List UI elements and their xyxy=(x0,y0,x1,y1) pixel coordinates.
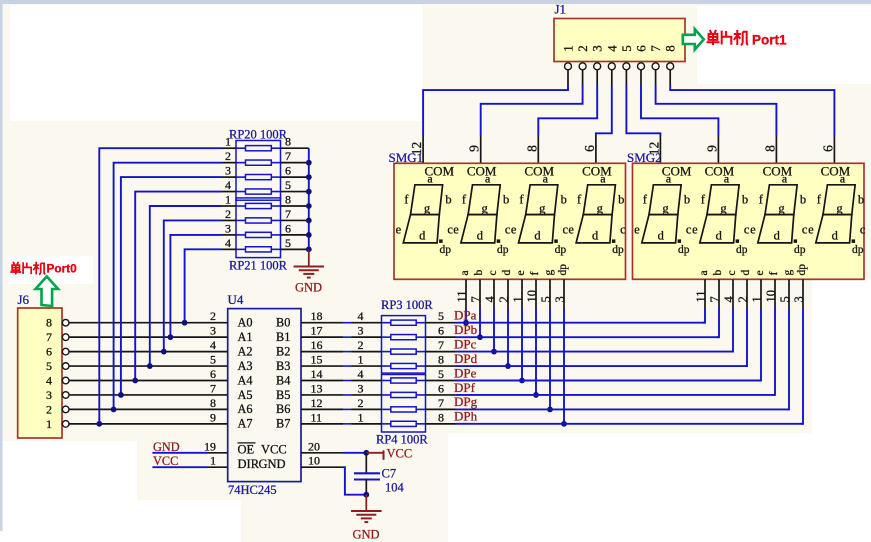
wire RP20/21 pin 2 to U4 A6 xyxy=(114,163,222,410)
svg-text:15: 15 xyxy=(311,353,323,367)
svg-text:c: c xyxy=(620,223,626,237)
wire J1 pin 1 to SMG1 COM1 xyxy=(423,85,568,136)
RP20/21 left stub 5 xyxy=(222,219,237,221)
wire SMG1 segment col 0 down to DP row xyxy=(465,308,467,323)
net wire DPc xyxy=(456,351,734,353)
svg-text:b: b xyxy=(858,193,864,207)
J1 pin 4 stub xyxy=(611,70,613,85)
svg-text:c: c xyxy=(726,270,738,275)
svg-text:6: 6 xyxy=(582,145,597,152)
svg-text:c: c xyxy=(860,223,866,237)
wire J1 pin 3 to SMG1 COM3 xyxy=(538,85,597,136)
RP3/RP4 resistor element row 2 xyxy=(391,349,416,354)
svg-text:6: 6 xyxy=(438,381,444,395)
svg-text:b: b xyxy=(712,270,724,276)
svg-text:2: 2 xyxy=(575,45,590,52)
wire RP20/21 pin 4 to U4 A0 xyxy=(185,249,222,322)
net wire DPf xyxy=(456,394,776,396)
wire U4-RP gap row 1 xyxy=(343,336,352,338)
svg-text:6: 6 xyxy=(285,164,291,178)
Port1 arrow (green, pointing right) xyxy=(683,29,704,49)
svg-text:dp: dp xyxy=(736,244,748,256)
U4 right pin stub 17 xyxy=(301,336,343,338)
U4 right pin stub 14 xyxy=(301,380,343,382)
svg-text:g: g xyxy=(778,201,785,215)
RP3/RP4 resistor element row 0 xyxy=(391,320,416,325)
RP20/21 right stub 4 xyxy=(271,205,280,207)
junction SMG1 col 2 xyxy=(491,349,497,355)
svg-text:COM: COM xyxy=(524,164,554,179)
U4 right pin stub 18 xyxy=(301,322,343,324)
J1 pin 3 circle xyxy=(594,63,601,70)
svg-text:6: 6 xyxy=(634,45,649,52)
junction RP right row 2 xyxy=(306,174,312,180)
RP3/RP4 resistor element row 3 xyxy=(391,363,416,368)
RP20/21 right stub 1 xyxy=(271,162,280,164)
RP3/RP4 resistor element row 6 xyxy=(391,407,416,412)
svg-text:g: g xyxy=(836,201,843,215)
SMG2 COM4 pin stub xyxy=(833,136,835,163)
J1 pin 4 circle xyxy=(608,63,615,70)
J1 pin 3 stub xyxy=(596,70,598,85)
U4 right pin stub 12 xyxy=(301,408,343,410)
junction RP right row 7 xyxy=(306,246,312,252)
svg-text:DPd: DPd xyxy=(454,351,478,366)
junction bundle 1 xyxy=(111,407,117,413)
VCC power symbol xyxy=(366,452,383,454)
svg-text:16: 16 xyxy=(311,338,323,352)
svg-text:RP4 100R: RP4 100R xyxy=(376,433,428,447)
svg-text:3: 3 xyxy=(553,296,567,302)
svg-text:DPb: DPb xyxy=(454,322,477,337)
RP20/21 left stub 4 xyxy=(222,205,237,207)
svg-text:g: g xyxy=(720,201,727,215)
connector J1 xyxy=(554,19,685,62)
svg-text:8: 8 xyxy=(762,145,777,152)
SMG1 segment pin stub 4 xyxy=(521,279,523,308)
J1 pin 5 stub xyxy=(625,70,627,85)
svg-text:A1: A1 xyxy=(238,330,253,344)
RP20/21 right stub 7 xyxy=(271,248,280,250)
SMG1 segment pin stub 1 xyxy=(479,279,481,308)
svg-text:10: 10 xyxy=(525,290,539,303)
svg-text:4: 4 xyxy=(358,367,364,381)
svg-text:c: c xyxy=(487,270,499,275)
RP3/RP4 resistor element row 5 xyxy=(391,392,416,397)
svg-text:3: 3 xyxy=(225,221,231,235)
wire SMG1 segment col 1 down to DP row xyxy=(479,308,481,337)
RP20/21 left stub 2 xyxy=(222,176,237,178)
J6 pin 4 circle xyxy=(62,377,69,384)
svg-text:17: 17 xyxy=(311,324,323,338)
wire U4-RP gap row 2 xyxy=(343,351,352,353)
svg-text:d: d xyxy=(592,229,599,243)
J6 pin 1 circle xyxy=(62,421,69,428)
svg-text:e: e xyxy=(511,223,517,237)
RP20/21 resistor element 5 xyxy=(246,218,272,223)
wire J6 pin 2 to U4 xyxy=(69,408,228,410)
net wire DPg xyxy=(456,408,790,410)
wire RP20/21 pin 3 to U4 A1 xyxy=(170,235,221,337)
wire SMG1 segment col 2 down to DP row xyxy=(493,308,495,352)
resistor pack RP21 100R xyxy=(236,198,281,258)
svg-text:GND: GND xyxy=(295,281,322,295)
svg-text:b: b xyxy=(742,193,748,207)
svg-text:RP3 100R: RP3 100R xyxy=(381,298,433,312)
RP3/RP4 left pin stub row 5 xyxy=(352,394,382,396)
wire SMG2 segment col 4 elbow to DP row xyxy=(759,308,761,381)
junction bundle 4 xyxy=(147,363,153,369)
RP3/RP4 left pin stub row 0 xyxy=(352,322,382,324)
svg-text:COM: COM xyxy=(425,164,455,179)
wire J1 pin 5 to SMG2 COM1 xyxy=(626,85,660,136)
RP20/21 resistor element 7 xyxy=(246,247,272,252)
svg-text:1: 1 xyxy=(750,296,764,302)
RP20/21 resistor element 3 xyxy=(246,189,272,194)
RP20/21 left stub 0 xyxy=(222,147,237,149)
svg-text:b: b xyxy=(684,193,690,207)
svg-text:A2: A2 xyxy=(238,344,253,358)
RP20/21 right stub 0 xyxy=(271,147,280,149)
svg-text:COM: COM xyxy=(763,164,793,179)
svg-text:2: 2 xyxy=(46,402,52,416)
svg-text:5: 5 xyxy=(438,309,444,323)
label 单片机Port0 (red) xyxy=(10,262,45,275)
junction bundle 0 xyxy=(96,421,102,427)
svg-text:1: 1 xyxy=(511,296,525,302)
svg-text:8: 8 xyxy=(46,316,52,330)
junction RP right row 3 xyxy=(306,189,312,195)
svg-text:d: d xyxy=(658,229,665,243)
U4 pin 20 stub xyxy=(301,452,343,454)
resistor pack RP20 100R xyxy=(236,141,281,201)
wire SMG2 segment col 1 elbow to DP row xyxy=(717,308,719,337)
svg-text:a: a xyxy=(459,270,471,275)
RP3/RP4 right pin stub row 6 xyxy=(416,408,425,410)
RP3/RP4 resistor element row 7 xyxy=(391,421,416,426)
svg-text:7: 7 xyxy=(285,207,291,221)
wire J6 pin 5 to U4 xyxy=(69,365,228,367)
svg-text:1: 1 xyxy=(210,454,216,468)
svg-text:8: 8 xyxy=(210,396,216,410)
IC U4 74HC245 xyxy=(228,309,301,482)
wire RP20/21 pin 3 to U4 A5 xyxy=(121,177,222,395)
svg-text:g: g xyxy=(782,270,794,276)
svg-text:e: e xyxy=(515,270,527,275)
net wire DPb xyxy=(456,336,720,338)
svg-text:B2: B2 xyxy=(276,344,290,358)
svg-text:d: d xyxy=(740,270,752,276)
svg-text:7: 7 xyxy=(210,381,216,395)
J1 pin 7 circle xyxy=(652,63,659,70)
wire RP right common to GND xyxy=(308,148,310,250)
svg-text:4: 4 xyxy=(483,296,497,303)
U4 right pin stub 15 xyxy=(301,365,343,367)
svg-text:9: 9 xyxy=(704,145,719,152)
svg-text:104: 104 xyxy=(385,481,405,495)
RP3/RP4 right pin stub row 7 xyxy=(416,423,425,425)
wire U4-RP gap row 5 xyxy=(343,394,352,396)
J6 pin 8 circle xyxy=(62,319,69,326)
svg-text:2: 2 xyxy=(358,396,364,410)
svg-text:14: 14 xyxy=(311,367,323,381)
wire J1 pin 4 to SMG1 COM4 xyxy=(596,85,612,136)
resistor pack RP4 100R xyxy=(382,375,426,433)
svg-text:dp: dp xyxy=(555,244,567,256)
svg-text:3: 3 xyxy=(358,324,364,338)
svg-text:4: 4 xyxy=(722,296,736,303)
svg-text:dp: dp xyxy=(794,244,806,256)
svg-text:f: f xyxy=(529,272,541,276)
junction bundle 7 xyxy=(182,320,188,326)
wire U4-RP gap row 3 xyxy=(343,365,352,367)
junction RP right row 6 xyxy=(306,232,312,238)
svg-text:9: 9 xyxy=(467,145,482,152)
svg-text:DPa: DPa xyxy=(454,308,477,323)
net wire DPh xyxy=(456,423,804,425)
wire RP20/21 pin 1 to U4 A7 xyxy=(99,148,221,424)
svg-text:e: e xyxy=(754,270,766,275)
svg-text:A4: A4 xyxy=(238,373,253,387)
SMG1 COM1 pin stub xyxy=(422,136,424,163)
svg-text:b: b xyxy=(561,193,567,207)
svg-text:e: e xyxy=(634,223,640,237)
resistor pack RP3 100R xyxy=(382,316,426,374)
svg-text:GND: GND xyxy=(259,457,286,471)
wire RP20/21 pin 1 to U4 A3 xyxy=(150,206,222,366)
svg-text:g: g xyxy=(597,201,604,215)
wire J6 pin 8 to U4 xyxy=(69,322,228,324)
white patch behind Port0 label xyxy=(8,256,93,284)
svg-text:b: b xyxy=(800,193,806,207)
RP3/RP4 right pin stub row 4 xyxy=(416,380,425,382)
J6 pin 7 circle xyxy=(62,334,69,341)
svg-text:3: 3 xyxy=(210,324,216,338)
J1 pin 8 circle xyxy=(667,63,674,70)
svg-text:d: d xyxy=(716,229,723,243)
J1 pin 6 stub xyxy=(640,70,642,85)
RP3/RP4 resistor element row 1 xyxy=(391,335,416,340)
RP20/21 left stub 3 xyxy=(222,191,237,193)
SMG2 segment pin stub 4 xyxy=(760,279,762,308)
wire U4-RP gap row 0 xyxy=(343,322,352,324)
svg-text:1: 1 xyxy=(46,417,52,431)
svg-text:COM: COM xyxy=(662,164,692,179)
svg-text:3: 3 xyxy=(225,164,231,178)
wire RP20/21 pin 2 to U4 A2 xyxy=(164,220,222,351)
ground symbol (C7) xyxy=(365,495,367,511)
svg-text:18: 18 xyxy=(311,309,323,323)
svg-text:5: 5 xyxy=(438,367,444,381)
svg-text:8: 8 xyxy=(524,145,539,152)
svg-text:dp: dp xyxy=(852,244,864,256)
svg-text:B4: B4 xyxy=(276,373,290,387)
svg-text:f: f xyxy=(768,272,780,276)
svg-text:COM: COM xyxy=(705,164,735,179)
svg-text:b: b xyxy=(473,270,485,276)
svg-text:B3: B3 xyxy=(276,359,290,373)
J1 pin 5 circle xyxy=(623,63,630,70)
wire SMG2 segment col 0 elbow to DP row xyxy=(703,308,705,323)
svg-text:7: 7 xyxy=(469,296,483,302)
svg-text:2: 2 xyxy=(736,296,750,302)
svg-text:5: 5 xyxy=(210,353,216,367)
junction SMG1 col 7 xyxy=(561,421,567,427)
svg-text:B5: B5 xyxy=(276,388,290,402)
RP20/21 resistor element 2 xyxy=(246,175,272,180)
svg-text:DPe: DPe xyxy=(454,365,477,380)
svg-text:A5: A5 xyxy=(238,388,253,402)
svg-text:B0: B0 xyxy=(276,316,290,330)
wire SMG2 segment col 7 elbow to DP row xyxy=(801,308,803,424)
svg-text:11: 11 xyxy=(455,290,469,302)
SMG2 segment pin stub 1 xyxy=(718,279,720,308)
svg-text:A6: A6 xyxy=(238,402,253,416)
svg-text:1: 1 xyxy=(225,135,231,149)
net wire DPa xyxy=(456,322,706,324)
svg-text:e: e xyxy=(750,223,756,237)
svg-text:e: e xyxy=(808,223,814,237)
svg-text:b: b xyxy=(618,193,624,207)
junction RP right row 5 xyxy=(306,218,312,224)
svg-text:9: 9 xyxy=(210,410,216,424)
svg-text:GND: GND xyxy=(353,528,380,542)
svg-text:g: g xyxy=(481,201,488,215)
SMG2 segment pin stub 6 xyxy=(788,279,790,308)
svg-text:7: 7 xyxy=(438,396,444,410)
label 单片机 Port1 (red) xyxy=(707,30,749,45)
SMG2 segment pin stub 7 xyxy=(802,279,804,308)
svg-text:d: d xyxy=(774,229,781,243)
wire SMG2 segment col 2 elbow to DP row xyxy=(731,308,733,352)
SMG1 segment pin stub 2 xyxy=(493,279,495,308)
svg-text:5: 5 xyxy=(778,296,792,302)
SMG1 COM4 pin stub xyxy=(595,136,597,163)
RP3/RP4 left pin stub row 7 xyxy=(352,423,382,425)
junction GND node xyxy=(363,492,369,498)
svg-text:6: 6 xyxy=(210,367,216,381)
svg-text:b: b xyxy=(503,193,509,207)
RP20/21 right stub 2 xyxy=(271,176,280,178)
RP3/RP4 resistor element row 4 xyxy=(391,378,416,383)
RP3/RP4 right pin stub row 3 xyxy=(416,365,425,367)
svg-text:RP20 100R: RP20 100R xyxy=(229,128,288,142)
svg-text:8: 8 xyxy=(438,410,444,424)
wire J6 pin 1 to U4 xyxy=(69,423,228,425)
svg-text:dp: dp xyxy=(557,264,569,276)
svg-text:3: 3 xyxy=(590,45,605,52)
svg-text:dp: dp xyxy=(612,244,624,256)
wire J6 pin 3 to U4 xyxy=(69,394,228,396)
J1 pin 1 stub xyxy=(567,70,569,85)
svg-text:5: 5 xyxy=(619,45,634,52)
junction SMG1 col 4 xyxy=(519,378,525,384)
svg-text:B7: B7 xyxy=(276,417,290,431)
svg-text:Port0: Port0 xyxy=(47,262,78,276)
wire VCC to pin 1 xyxy=(208,466,228,468)
svg-text:19: 19 xyxy=(204,439,216,453)
SMG2 segment pin stub 3 xyxy=(746,279,748,308)
svg-text:2: 2 xyxy=(210,309,216,323)
svg-text:8: 8 xyxy=(285,135,291,149)
wire U4-RP gap row 6 xyxy=(343,408,352,410)
RP3/RP4 right pin stub row 1 xyxy=(416,336,425,338)
svg-text:VCC: VCC xyxy=(261,442,287,456)
RP3/RP4 left pin stub row 3 xyxy=(352,365,382,367)
J6 pin 3 circle xyxy=(62,392,69,399)
svg-text:6: 6 xyxy=(285,221,291,235)
SMG1 segment pin stub 7 xyxy=(563,279,565,308)
svg-text:J6: J6 xyxy=(18,292,30,307)
svg-text:3: 3 xyxy=(792,296,806,302)
RP20/21 right stub 3 xyxy=(271,191,280,193)
svg-text:11: 11 xyxy=(694,290,708,302)
SMG2 COM2 pin stub xyxy=(717,136,719,163)
junction VCC node xyxy=(363,450,369,456)
svg-text:5: 5 xyxy=(285,178,291,192)
RP20/21 left stub 1 xyxy=(222,162,237,164)
SMG2 COM3 pin stub xyxy=(775,136,777,163)
svg-text:4: 4 xyxy=(358,309,364,323)
J1 pin 6 circle xyxy=(638,63,645,70)
net wire DPd xyxy=(456,365,748,367)
net wire DPe xyxy=(456,380,762,382)
svg-text:g: g xyxy=(424,201,431,215)
svg-text:4: 4 xyxy=(225,236,231,250)
wire J1 pin 7 to SMG2 COM3 xyxy=(656,85,777,136)
RP3/RP4 right pin stub row 0 xyxy=(416,322,425,324)
svg-text:C7: C7 xyxy=(382,467,397,481)
svg-text:74HC245: 74HC245 xyxy=(228,483,277,497)
svg-text:dp: dp xyxy=(678,244,690,256)
svg-text:10: 10 xyxy=(764,290,778,303)
wire RP20/21 pin 4 to U4 A4 xyxy=(135,192,221,381)
RP3/RP4 left pin stub row 4 xyxy=(352,380,382,382)
svg-text:e: e xyxy=(396,223,402,237)
svg-text:7: 7 xyxy=(708,296,722,302)
wire J1 pin 2 to SMG1 COM2 xyxy=(481,85,583,136)
svg-text:1: 1 xyxy=(358,410,364,424)
SMG1 COM3 pin stub xyxy=(537,136,539,163)
capacitor C7 xyxy=(354,453,380,495)
wire SMG1 segment col 3 down to DP row xyxy=(507,308,509,366)
svg-text:d: d xyxy=(501,270,513,276)
SMG2 segment pin stub 2 xyxy=(732,279,734,308)
svg-text:5: 5 xyxy=(285,236,291,250)
wire U4-RP gap row 7 xyxy=(343,423,352,425)
svg-text:dp: dp xyxy=(796,264,808,276)
svg-text:8: 8 xyxy=(285,193,291,207)
svg-text:c: c xyxy=(802,223,808,237)
svg-text:VCC: VCC xyxy=(387,446,413,460)
RP20/21 resistor element 4 xyxy=(246,203,272,208)
svg-text:7: 7 xyxy=(438,338,444,352)
svg-text:J1: J1 xyxy=(555,2,567,17)
wire U4-RP gap row 4 xyxy=(343,380,352,382)
SMG1 segment pin stub 0 xyxy=(465,279,467,308)
wire J1 pin 6 to SMG2 COM2 xyxy=(641,85,718,136)
svg-text:dp: dp xyxy=(439,244,451,256)
svg-text:1: 1 xyxy=(561,45,576,52)
svg-text:12: 12 xyxy=(311,396,323,410)
4-digit 7-segment display SMG2 xyxy=(633,163,866,279)
svg-text:dp: dp xyxy=(497,244,509,256)
RP3/RP4 left pin stub row 2 xyxy=(352,351,382,353)
svg-text:d: d xyxy=(832,229,839,243)
junction bundle 5 xyxy=(161,349,167,355)
svg-text:d: d xyxy=(419,229,426,243)
svg-text:2: 2 xyxy=(225,149,231,163)
